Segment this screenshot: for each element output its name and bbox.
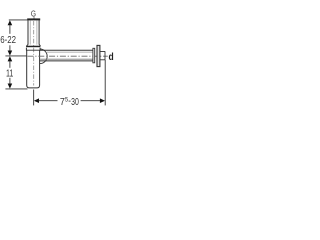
inlet pipe outer walls bbox=[27, 20, 29, 44]
svg-text:d: d bbox=[109, 52, 114, 63]
bottom dim line right bbox=[81, 100, 101, 102]
outlet pipe inner top wall bbox=[47, 51, 93, 53]
dim 6-22 down arrow bbox=[8, 51, 13, 56]
dim 11 line lower bbox=[9, 78, 11, 84]
svg-text:30: 30 bbox=[71, 97, 79, 108]
outlet stub bottom bbox=[100, 59, 105, 61]
outlet stub end cap bbox=[104, 51, 106, 60]
dim 6-22 line upper bbox=[9, 25, 11, 34]
bottom dim right extension line bbox=[104, 60, 106, 105]
dim 11 line upper bbox=[9, 61, 11, 68]
outlet union nut bulge bbox=[40, 49, 47, 64]
outlet pipe bottom wall bbox=[40, 60, 93, 62]
inlet pipe inner walls bbox=[29, 20, 31, 44]
outlet pipe top wall bbox=[40, 49, 93, 51]
inlet pipe top nut bar bbox=[27, 18, 40, 20]
bottom dim right arrow bbox=[100, 98, 105, 103]
dim 11 down arrow bbox=[8, 84, 13, 89]
inlet pipe dashed centerline bbox=[33, 21, 35, 86]
outlet dash-dot centerline bbox=[28, 55, 108, 57]
bottom extension line (trap base) bbox=[5, 88, 27, 90]
mid extension line (outlet axis) bbox=[5, 55, 26, 57]
svg-text:G: G bbox=[31, 9, 36, 18]
trap union nut top bar bbox=[26, 46, 40, 48]
leader tick under G bbox=[33, 16, 35, 19]
dim 11 up arrow bbox=[8, 56, 13, 61]
outlet pipe inner bottom wall bbox=[40, 58, 93, 60]
bottom dim line left bbox=[39, 100, 58, 102]
dim 6-22 top extension line bbox=[9, 19, 28, 21]
flare at pipe base bbox=[27, 44, 28, 46]
trap cup body bbox=[27, 50, 40, 88]
wall flange rosette bbox=[97, 45, 100, 66]
wall-side nut bbox=[93, 48, 95, 63]
trap union nut body bbox=[25, 48, 27, 51]
svg-text:6-22: 6-22 bbox=[0, 35, 16, 46]
bottom dim left extension line bbox=[33, 90, 35, 106]
dim 6-22 line lower bbox=[9, 45, 11, 51]
outlet stub top bbox=[100, 51, 105, 53]
bottom dim left arrow bbox=[34, 98, 39, 103]
dim 6-22 up arrow bbox=[8, 20, 13, 25]
